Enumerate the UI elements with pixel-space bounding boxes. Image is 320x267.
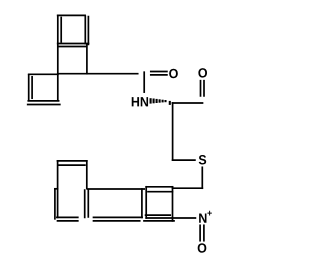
ring E outer-right vertical xyxy=(87,189,89,217)
ring B right edge xyxy=(86,45,88,74)
N=O double bond line 1 xyxy=(199,225,201,240)
ring G bottom edge and bond to N xyxy=(146,217,195,219)
ring A left edge continuing as ring B / ring C shared vertical xyxy=(57,15,59,100)
ring G inner bottom double bond xyxy=(146,214,171,216)
S label xyxy=(199,155,206,164)
hashed wedge bond N-Ca xyxy=(151,98,170,105)
ring D right vertical xyxy=(86,161,88,189)
ring A inner-left double bond xyxy=(60,18,62,42)
ring F bottom edge xyxy=(94,216,143,218)
ring E bottom edge xyxy=(57,216,78,218)
HN label xyxy=(132,97,148,106)
ring C second bottom line xyxy=(28,104,60,106)
ring C (lower-left square) top edge xyxy=(29,73,58,75)
amide C=O double bond line 1 xyxy=(151,71,167,73)
aldehyde C=O double bond line 2 xyxy=(203,81,205,96)
ring E inner-right vertical xyxy=(84,190,86,217)
amide C-N bond xyxy=(143,72,145,92)
ring F low second bottom line xyxy=(94,220,140,222)
ring D (bottom-left upper square) top edge xyxy=(58,160,87,162)
ring E low second bottom line xyxy=(58,220,78,222)
ring C bottom edge xyxy=(28,100,58,102)
N label (nitro) xyxy=(199,213,206,222)
O label (nitro) xyxy=(198,243,207,252)
long bond to carbonyl (ring B bottom) xyxy=(58,73,138,75)
ring D / ring E left vertical xyxy=(57,161,59,218)
N=O double bond line 2 xyxy=(203,225,205,240)
ring C inner-left double bond xyxy=(31,77,33,98)
O label (amide) xyxy=(169,69,178,78)
ring G right edge xyxy=(172,187,174,221)
plus superscript xyxy=(207,211,211,216)
ring G low second bottom line xyxy=(144,220,174,222)
ring A bottom edge xyxy=(58,43,89,45)
ring A (top square) top edge xyxy=(58,14,85,16)
amide C=O double bond line 2 xyxy=(151,74,167,76)
ring E top-left jog xyxy=(55,188,58,190)
ring F (middle rectangle) top edge xyxy=(87,188,144,190)
Ca-CHO bond xyxy=(173,102,203,104)
ring F right edge xyxy=(141,189,143,217)
ring A right edge xyxy=(84,16,86,43)
ring G top edge xyxy=(146,186,172,188)
ring A outer-right double line xyxy=(87,17,89,45)
aldehyde C=O double bond line 1 xyxy=(200,81,202,96)
ring G inner top double bond xyxy=(148,191,172,193)
ring C left edge xyxy=(28,75,30,100)
CH2-ringG bond xyxy=(173,187,203,189)
ring D inner-top double bond xyxy=(59,164,85,166)
ring G (nitro square) left edge xyxy=(145,187,147,218)
O label (aldehyde) xyxy=(198,68,207,77)
CH2-S bond xyxy=(173,159,195,161)
ring B top edge (second line) xyxy=(58,46,86,48)
S-CH2 bond xyxy=(201,167,203,188)
ring E outer-left vertical xyxy=(54,189,56,219)
Ca-CH2 bond xyxy=(172,103,174,160)
